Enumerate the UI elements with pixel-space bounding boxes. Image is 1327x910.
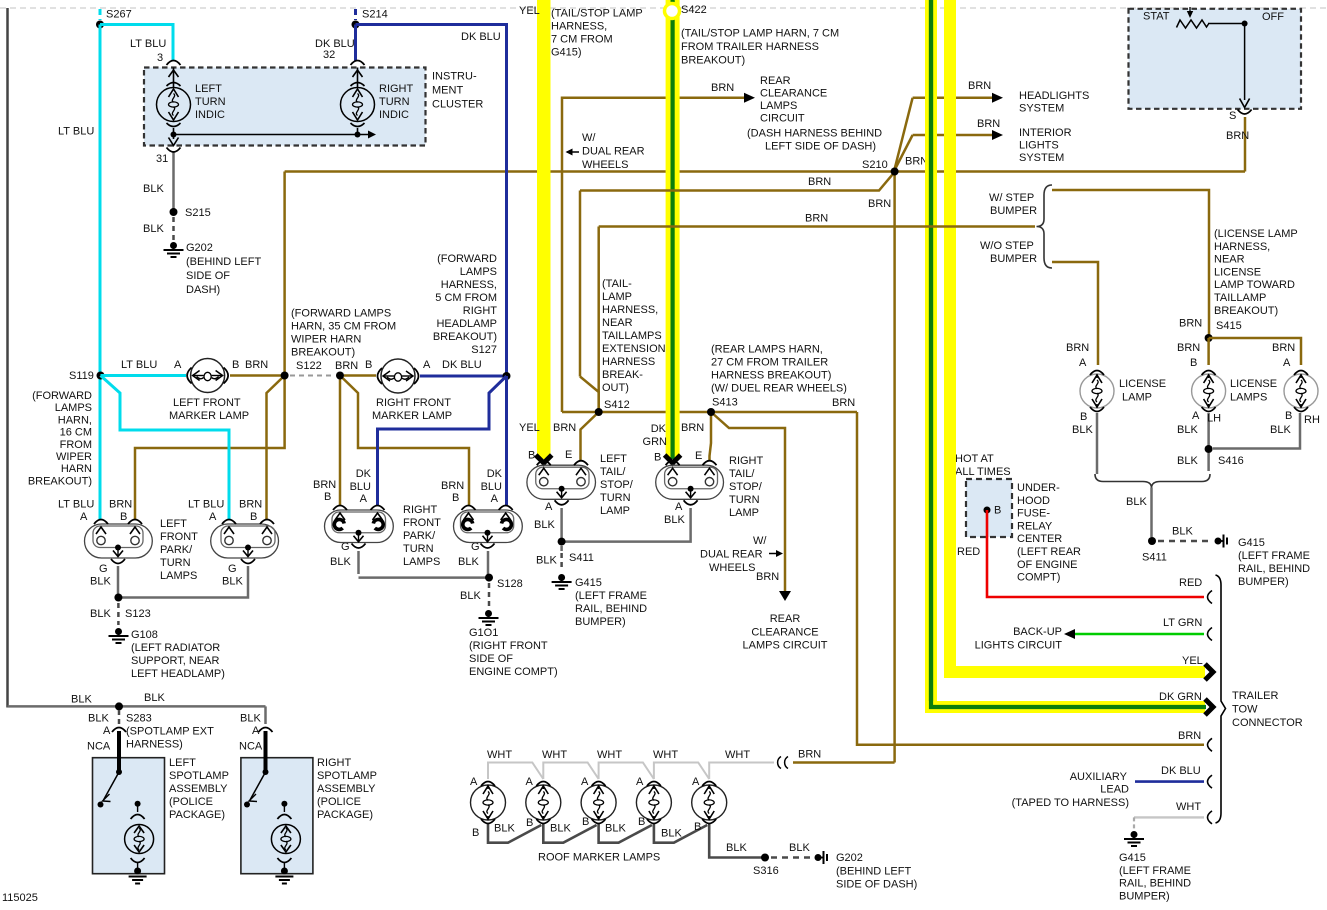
svg-text:LEFT: LEFT xyxy=(600,453,627,465)
svg-text:TAILLAMPS: TAILLAMPS xyxy=(602,330,662,342)
svg-text:S122: S122 xyxy=(296,360,322,372)
svg-text:E: E xyxy=(565,449,572,461)
svg-text:LAMPS: LAMPS xyxy=(460,266,497,278)
arrow backup lights circuit xyxy=(1064,629,1075,639)
svg-text:E: E xyxy=(695,450,702,462)
trailer pin WHT xyxy=(1208,811,1213,824)
wire BLK S411 to G415 frame rail xyxy=(1158,526,1212,542)
svg-text:NCA: NCA xyxy=(87,741,111,753)
svg-text:WHT: WHT xyxy=(725,749,750,761)
wire LT BLU main vertical xyxy=(58,25,100,520)
svg-text:DK BLU: DK BLU xyxy=(1161,765,1201,777)
svg-text:BLK: BLK xyxy=(1172,526,1193,538)
svg-text:BLK: BLK xyxy=(88,713,109,725)
svg-text:S123: S123 xyxy=(125,608,151,620)
svg-text:DK: DK xyxy=(356,468,372,480)
lamp left front park turn 1 xyxy=(85,520,153,564)
svg-text:BLK: BLK xyxy=(90,608,111,620)
svg-text:B: B xyxy=(120,511,127,523)
wire BRN roof marker feed xyxy=(793,749,895,763)
splice S316 xyxy=(753,854,779,878)
svg-text:A: A xyxy=(526,776,534,788)
svg-text:LEFT: LEFT xyxy=(169,757,196,769)
svg-text:MARKER LAMP: MARKER LAMP xyxy=(372,410,452,422)
svg-text:5 CM FROM: 5 CM FROM xyxy=(435,292,497,304)
splice S119 xyxy=(28,370,105,487)
svg-text:BLK: BLK xyxy=(330,556,351,568)
svg-text:(FORWARD: (FORWARD xyxy=(32,390,92,402)
lamp right front park turn 2 xyxy=(403,504,522,568)
wire dashed S122 link xyxy=(290,375,335,377)
svg-text:RED: RED xyxy=(957,546,980,558)
splice S123 xyxy=(90,594,151,621)
wire YEL trailer horizontal xyxy=(944,0,1205,672)
svg-text:TOW: TOW xyxy=(1232,704,1258,716)
svg-text:LAMPS: LAMPS xyxy=(55,402,92,414)
svg-text:G: G xyxy=(228,563,237,575)
svg-text:SPOTLAMP: SPOTLAMP xyxy=(317,770,377,782)
svg-text:BLK: BLK xyxy=(1177,424,1198,436)
svg-text:BLK: BLK xyxy=(143,183,164,195)
svg-text:HARNESS,: HARNESS, xyxy=(1214,241,1270,253)
svg-text:HARNESS BREAKOUT): HARNESS BREAKOUT) xyxy=(711,370,831,382)
svg-text:(LEFT RADIATOR: (LEFT RADIATOR xyxy=(131,642,220,654)
svg-text:LIGHTS: LIGHTS xyxy=(1019,140,1059,152)
note w dual rear wheels left xyxy=(566,132,645,171)
svg-text:S413: S413 xyxy=(712,397,738,409)
roof marker lamps label xyxy=(538,852,660,864)
svg-text:BUMPER: BUMPER xyxy=(990,253,1037,265)
switch wire to off terminal xyxy=(1208,21,1250,108)
svg-text:BLK: BLK xyxy=(536,555,557,567)
underhood fuse-relay center box xyxy=(955,453,1081,584)
trailer tow connector body xyxy=(1216,575,1303,823)
svg-text:HARNESS,: HARNESS, xyxy=(602,304,658,316)
svg-text:LAMPS: LAMPS xyxy=(1230,392,1267,404)
svg-text:BLK: BLK xyxy=(460,590,481,602)
svg-text:BREAKOUT): BREAKOUT) xyxy=(28,475,92,487)
svg-text:B: B xyxy=(365,359,372,371)
wire BLK tail lamp grounds link xyxy=(534,501,691,542)
svg-text:LAMP TOWARD: LAMP TOWARD xyxy=(1214,279,1295,291)
svg-text:(BEHIND LEFT: (BEHIND LEFT xyxy=(186,256,261,268)
svg-text:DUAL REAR: DUAL REAR xyxy=(582,146,645,158)
arrow DK GRN to right tail B xyxy=(643,423,681,464)
arrow YEL to left tail B xyxy=(519,422,552,463)
arrow rear clearance circuit bottom xyxy=(743,591,828,652)
roof marker lamp 2 xyxy=(526,776,561,824)
svg-text:ALL TIMES: ALL TIMES xyxy=(955,466,1011,478)
cluster internal arrow wire xyxy=(174,131,377,139)
svg-text:FROM: FROM xyxy=(60,439,92,451)
svg-text:OUT): OUT) xyxy=(602,382,629,394)
svg-text:HOT AT: HOT AT xyxy=(955,453,994,465)
svg-text:YEL: YEL xyxy=(519,422,540,434)
svg-text:BREAK-: BREAK- xyxy=(602,369,643,381)
note w dual rear wheels right xyxy=(700,535,783,583)
svg-text:BLK: BLK xyxy=(605,823,626,835)
svg-text:TAIL/: TAIL/ xyxy=(600,466,626,478)
svg-text:BRN: BRN xyxy=(681,422,704,434)
svg-text:G415): G415) xyxy=(551,47,582,59)
roof marker lamp 1 xyxy=(470,776,506,824)
wire DK BLU auxiliary lead xyxy=(1012,765,1204,809)
rheostat resistor xyxy=(1177,7,1209,28)
wire RED fuse to trailer xyxy=(957,505,1204,598)
wire BRN splice2 to right marker xyxy=(335,359,376,376)
svg-text:AUXILIARY: AUXILIARY xyxy=(1070,771,1128,783)
wire BLK S123 to G108 xyxy=(117,603,120,625)
arrow DK GRN trailer pin xyxy=(1159,691,1213,715)
svg-text:ENGINE COMPT): ENGINE COMPT) xyxy=(469,666,558,678)
svg-text:31: 31 xyxy=(156,153,168,165)
svg-text:LEFT FRONT: LEFT FRONT xyxy=(173,397,241,409)
svg-text:(LEFT FRAME: (LEFT FRAME xyxy=(1119,865,1191,877)
svg-text:A: A xyxy=(423,359,431,371)
svg-text:A: A xyxy=(103,725,111,737)
wire BLK S215 to G202 xyxy=(172,217,175,240)
svg-text:RED: RED xyxy=(1179,577,1202,589)
wire BLK roof marker ground chain xyxy=(472,816,762,858)
left spotlamp pin A cup xyxy=(112,728,126,733)
svg-text:A: A xyxy=(581,776,589,788)
svg-text:S128: S128 xyxy=(497,578,523,590)
svg-text:BRN: BRN xyxy=(1179,318,1202,330)
svg-text:BRN: BRN xyxy=(977,118,1000,130)
w/ step bumper brace xyxy=(980,185,1052,268)
svg-text:WHT: WHT xyxy=(542,749,567,761)
svg-text:CLEARANCE: CLEARANCE xyxy=(760,88,827,100)
wire BRN S210 main horizontal xyxy=(285,156,1245,172)
svg-text:ASSEMBLY: ASSEMBLY xyxy=(317,783,376,795)
wire BRN S412 trunk vertical from S210 xyxy=(893,172,896,763)
svg-text:BRN: BRN xyxy=(313,479,336,491)
svg-text:S422: S422 xyxy=(681,4,707,16)
wire BLK S128 to G1O1 xyxy=(488,583,491,607)
svg-text:HOOD: HOOD xyxy=(1017,495,1050,507)
splice S127 xyxy=(433,253,511,380)
svg-text:(POLICE: (POLICE xyxy=(169,796,213,808)
wire BRN S122 to left park lamps xyxy=(109,376,285,524)
lamp right tail stop turn xyxy=(656,455,764,519)
svg-text:G: G xyxy=(99,563,108,575)
svg-text:BRN: BRN xyxy=(1177,342,1200,354)
svg-text:B: B xyxy=(1285,410,1292,422)
svg-text:BLK: BLK xyxy=(534,519,555,531)
svg-text:REAR: REAR xyxy=(770,613,801,625)
svg-text:S416: S416 xyxy=(1218,455,1244,467)
svg-text:BLK: BLK xyxy=(90,576,111,588)
wire right spotlamp lead xyxy=(264,731,268,771)
lamp right front marker xyxy=(372,359,452,422)
svg-text:BLK: BLK xyxy=(458,556,479,568)
svg-text:HEADLAMP: HEADLAMP xyxy=(436,318,497,330)
wire YEL trailer vertical xyxy=(944,0,956,666)
ground G415 side symbol xyxy=(1215,535,1311,589)
splice S422 ring xyxy=(665,4,840,67)
svg-text:G415: G415 xyxy=(575,577,602,589)
svg-text:32: 32 xyxy=(323,49,335,61)
svg-text:A: A xyxy=(209,511,217,523)
svg-text:B: B xyxy=(526,817,533,829)
svg-text:ASSEMBLY: ASSEMBLY xyxy=(169,783,228,795)
svg-text:S127: S127 xyxy=(471,344,497,356)
wire BRN S412 to left tail E xyxy=(553,412,599,461)
svg-text:CIRCUIT: CIRCUIT xyxy=(760,113,805,125)
svg-text:TURN: TURN xyxy=(195,96,226,108)
svg-text:BREAKOUT): BREAKOUT) xyxy=(433,331,497,343)
svg-text:DK BLU: DK BLU xyxy=(442,359,482,371)
instrument cluster box xyxy=(144,68,483,146)
svg-text:G1O1: G1O1 xyxy=(469,627,498,639)
wire BRN splice2 to right park lamps xyxy=(313,376,469,506)
svg-text:LAMPS: LAMPS xyxy=(160,570,197,582)
wire BRN S415 branches xyxy=(1066,318,1301,370)
cluster pin 31 xyxy=(156,148,181,166)
svg-text:BLK: BLK xyxy=(71,694,92,706)
svg-text:BRN: BRN xyxy=(109,499,132,511)
wire WHT trailer ground xyxy=(1134,801,1204,831)
svg-text:A: A xyxy=(692,776,700,788)
svg-text:LAMPS CIRCUIT: LAMPS CIRCUIT xyxy=(743,640,828,652)
svg-text:LEFT SIDE OF DASH): LEFT SIDE OF DASH) xyxy=(765,141,876,153)
svg-text:TURN: TURN xyxy=(160,557,191,569)
svg-text:SPOTLAMP: SPOTLAMP xyxy=(169,770,229,782)
svg-text:NCA: NCA xyxy=(239,741,263,753)
svg-text:LAMPS: LAMPS xyxy=(760,100,797,112)
svg-text:BUMPER: BUMPER xyxy=(990,205,1037,217)
lamp license LH xyxy=(1192,371,1277,412)
svg-text:GRN: GRN xyxy=(643,436,668,448)
svg-text:BLK: BLK xyxy=(550,823,571,835)
ground G202 behind dash xyxy=(164,242,262,296)
svg-text:BLK: BLK xyxy=(240,713,261,725)
wire DK BLU S214 to S127 xyxy=(356,25,507,374)
svg-text:BRN: BRN xyxy=(335,360,358,372)
svg-text:MARKER LAMP: MARKER LAMP xyxy=(169,410,249,422)
lamp license single xyxy=(1080,371,1166,412)
wire BLK brace to S411 xyxy=(1126,488,1152,538)
svg-text:CLEARANCE: CLEARANCE xyxy=(751,626,818,638)
roof marker lamp 5 xyxy=(692,776,727,824)
wire BRN x857 to trailer xyxy=(857,412,1204,745)
svg-text:B: B xyxy=(654,452,661,464)
trailer pin LT GRN xyxy=(1208,628,1213,641)
splice S267 xyxy=(96,9,132,29)
svg-text:S215: S215 xyxy=(185,207,211,219)
svg-text:TURN: TURN xyxy=(600,492,631,504)
wire WHT roof marker chain xyxy=(487,749,774,779)
wire DK BLU S214 stub xyxy=(354,9,357,20)
svg-text:B: B xyxy=(250,511,257,523)
svg-text:LAMP: LAMP xyxy=(729,507,759,519)
svg-text:TURN: TURN xyxy=(403,543,434,555)
svg-text:FRONT: FRONT xyxy=(403,517,441,529)
svg-text:BREAKOUT): BREAKOUT) xyxy=(1214,305,1278,317)
svg-text:TURN: TURN xyxy=(729,494,760,506)
svg-text:LT BLU: LT BLU xyxy=(58,499,94,511)
left page border line xyxy=(6,8,9,708)
svg-text:A: A xyxy=(174,359,182,371)
svg-text:RIGHT FRONT: RIGHT FRONT xyxy=(376,397,451,409)
svg-text:27 CM FROM TRAILER: 27 CM FROM TRAILER xyxy=(711,357,828,369)
svg-text:BRN: BRN xyxy=(441,480,464,492)
wire DK BLU S127 to right park lamp 2 xyxy=(481,376,507,505)
svg-text:B: B xyxy=(472,827,479,839)
svg-text:LICENSE: LICENSE xyxy=(1214,266,1261,278)
svg-text:BLK: BLK xyxy=(789,842,810,854)
wire BRN S413 to right tail E xyxy=(681,412,711,462)
wire BLK S283 to right spotlamp A xyxy=(239,706,266,752)
svg-text:CENTER: CENTER xyxy=(1017,533,1062,545)
splice S416 xyxy=(1177,445,1244,467)
wire LT BLU S267 to cluster pin 3 xyxy=(100,25,173,65)
wire BLK spotlamp feed horizontal xyxy=(8,692,266,706)
svg-text:A: A xyxy=(80,511,88,523)
wire DK BLU S127 to right park lamp 1 xyxy=(350,376,507,505)
svg-text:LEFT: LEFT xyxy=(195,83,222,95)
svg-text:B: B xyxy=(528,450,535,462)
splice S215 xyxy=(143,207,211,235)
splice S122b xyxy=(336,372,344,380)
wire LT BLU S267 stub xyxy=(99,9,102,20)
svg-text:BRN: BRN xyxy=(868,198,891,210)
svg-text:BLK: BLK xyxy=(664,514,685,526)
svg-text:B: B xyxy=(582,816,589,828)
svg-text:BRN: BRN xyxy=(968,80,991,92)
right spotlamp assembly box xyxy=(241,757,377,874)
svg-text:(FORWARD: (FORWARD xyxy=(437,253,497,265)
svg-text:(POLICE: (POLICE xyxy=(317,796,361,808)
trailer pin RED xyxy=(1208,591,1213,604)
svg-text:BLU: BLU xyxy=(350,481,371,493)
ground G415 left frame rail xyxy=(552,574,648,628)
svg-text:LT BLU: LT BLU xyxy=(188,499,224,511)
svg-text:RAIL, BEHIND: RAIL, BEHIND xyxy=(1238,563,1310,575)
svg-text:(LEFT FRAME: (LEFT FRAME xyxy=(1238,550,1310,562)
svg-text:WHT: WHT xyxy=(653,749,678,761)
svg-text:HEADLIGHTS: HEADLIGHTS xyxy=(1019,90,1089,102)
wire BRN interior lights feed xyxy=(895,118,1001,170)
svg-text:SUPPORT, NEAR: SUPPORT, NEAR xyxy=(131,655,219,667)
svg-text:COMPT): COMPT) xyxy=(1017,572,1060,584)
svg-text:BRN: BRN xyxy=(756,571,779,583)
wire DK BLU S214 to cluster pin 32 xyxy=(315,25,356,62)
svg-text:BRN: BRN xyxy=(905,156,928,168)
svg-text:G415: G415 xyxy=(1119,852,1146,864)
wire BRN step bumper line xyxy=(599,213,1035,413)
splice S283 xyxy=(88,702,214,750)
svg-text:G202: G202 xyxy=(186,242,213,254)
wire BLK license lamp grounds xyxy=(1072,410,1320,474)
wire DK BLU right marker to S127 xyxy=(420,359,505,376)
svg-text:TRAILER: TRAILER xyxy=(1232,690,1279,702)
svg-text:(SPOTLAMP EXT: (SPOTLAMP EXT xyxy=(126,726,214,738)
svg-text:INTERIOR: INTERIOR xyxy=(1019,127,1072,139)
svg-text:NEAR: NEAR xyxy=(1214,254,1245,266)
svg-text:(DASH HARNESS BEHIND: (DASH HARNESS BEHIND xyxy=(747,128,882,140)
svg-text:BRN: BRN xyxy=(711,82,734,94)
svg-text:WIPER HARN: WIPER HARN xyxy=(291,334,361,346)
wire BRN left marker to S122 xyxy=(230,359,285,376)
svg-text:115025: 115025 xyxy=(2,892,38,904)
svg-text:BLK: BLK xyxy=(144,692,165,704)
lamp right turn indicator xyxy=(341,61,414,138)
wire BRN S210 to S122 vertical xyxy=(283,172,286,376)
svg-text:LAMP: LAMP xyxy=(1122,392,1152,404)
svg-text:INDIC: INDIC xyxy=(379,109,409,121)
trailer pin DK BLU xyxy=(1208,775,1213,788)
svg-text:W/: W/ xyxy=(753,535,767,547)
svg-text:A: A xyxy=(1283,357,1291,369)
page top dashed border xyxy=(0,7,1327,9)
lamp right front park turn 1 xyxy=(325,506,394,549)
svg-text:LEAD: LEAD xyxy=(1100,784,1129,796)
svg-text:INDIC: INDIC xyxy=(195,109,225,121)
svg-text:A: A xyxy=(675,501,683,513)
svg-text:BREAKOUT): BREAKOUT) xyxy=(681,55,745,67)
svg-text:B: B xyxy=(694,821,701,833)
wire BLK right park turn grounds xyxy=(330,541,488,578)
svg-text:PARK/: PARK/ xyxy=(403,530,436,542)
svg-text:HARNESS,: HARNESS, xyxy=(551,21,607,33)
svg-text:S316: S316 xyxy=(753,865,779,877)
svg-text:RIGHT: RIGHT xyxy=(379,83,414,95)
splice S128 xyxy=(460,574,523,602)
svg-text:BLK: BLK xyxy=(1126,496,1147,508)
svg-text:LIGHTS CIRCUIT: LIGHTS CIRCUIT xyxy=(975,639,1063,651)
ground G415 trailer xyxy=(1119,831,1191,902)
svg-text:LT BLU: LT BLU xyxy=(130,38,166,50)
wire BLK S411 to G415 xyxy=(560,546,563,571)
svg-text:W/O STEP: W/O STEP xyxy=(980,240,1034,252)
svg-text:LEFT: LEFT xyxy=(160,518,187,530)
svg-text:TURN: TURN xyxy=(379,96,410,108)
svg-text:BLK: BLK xyxy=(1270,424,1291,436)
svg-text:EXTENSION: EXTENSION xyxy=(602,343,666,355)
svg-text:(REAR LAMPS HARN,: (REAR LAMPS HARN, xyxy=(711,344,823,356)
svg-text:S283: S283 xyxy=(126,713,152,725)
svg-text:S210: S210 xyxy=(862,159,888,171)
svg-text:B: B xyxy=(1190,357,1197,369)
svg-text:BREAKOUT): BREAKOUT) xyxy=(291,347,355,359)
svg-text:S411: S411 xyxy=(569,552,594,564)
wire BRN rear clearance feed left xyxy=(562,82,746,412)
roof marker lamp 4 xyxy=(636,776,671,824)
svg-text:WIPER: WIPER xyxy=(56,451,92,463)
svg-text:HARNESS: HARNESS xyxy=(602,356,655,368)
svg-text:(LEFT FRAME: (LEFT FRAME xyxy=(575,590,647,602)
wire BLK S283 to left spotlamp A xyxy=(87,710,119,753)
svg-text:DK GRN: DK GRN xyxy=(1159,691,1202,703)
svg-text:DUAL REAR: DUAL REAR xyxy=(700,549,763,561)
svg-text:BLK: BLK xyxy=(661,828,682,840)
svg-text:S411: S411 xyxy=(1142,552,1167,564)
splice S210 xyxy=(891,168,899,176)
wire YEL tail stop lamp harness xyxy=(519,0,643,459)
svg-text:RAIL, BEHIND: RAIL, BEHIND xyxy=(1119,878,1191,890)
svg-text:BACK-UP: BACK-UP xyxy=(1013,626,1062,638)
svg-text:RAIL, BEHIND: RAIL, BEHIND xyxy=(575,603,647,615)
wire BRN y412 rear lamps harness xyxy=(562,397,857,412)
svg-text:RIGHT: RIGHT xyxy=(729,455,764,467)
svg-text:BLU: BLU xyxy=(481,481,502,493)
svg-text:16 CM: 16 CM xyxy=(60,427,92,439)
right spotlamp pin A cup xyxy=(259,728,273,733)
wire DK GRN trailer vertical xyxy=(925,0,931,713)
svg-text:G202: G202 xyxy=(836,852,863,864)
svg-text:(RIGHT FRONT: (RIGHT FRONT xyxy=(469,640,548,652)
